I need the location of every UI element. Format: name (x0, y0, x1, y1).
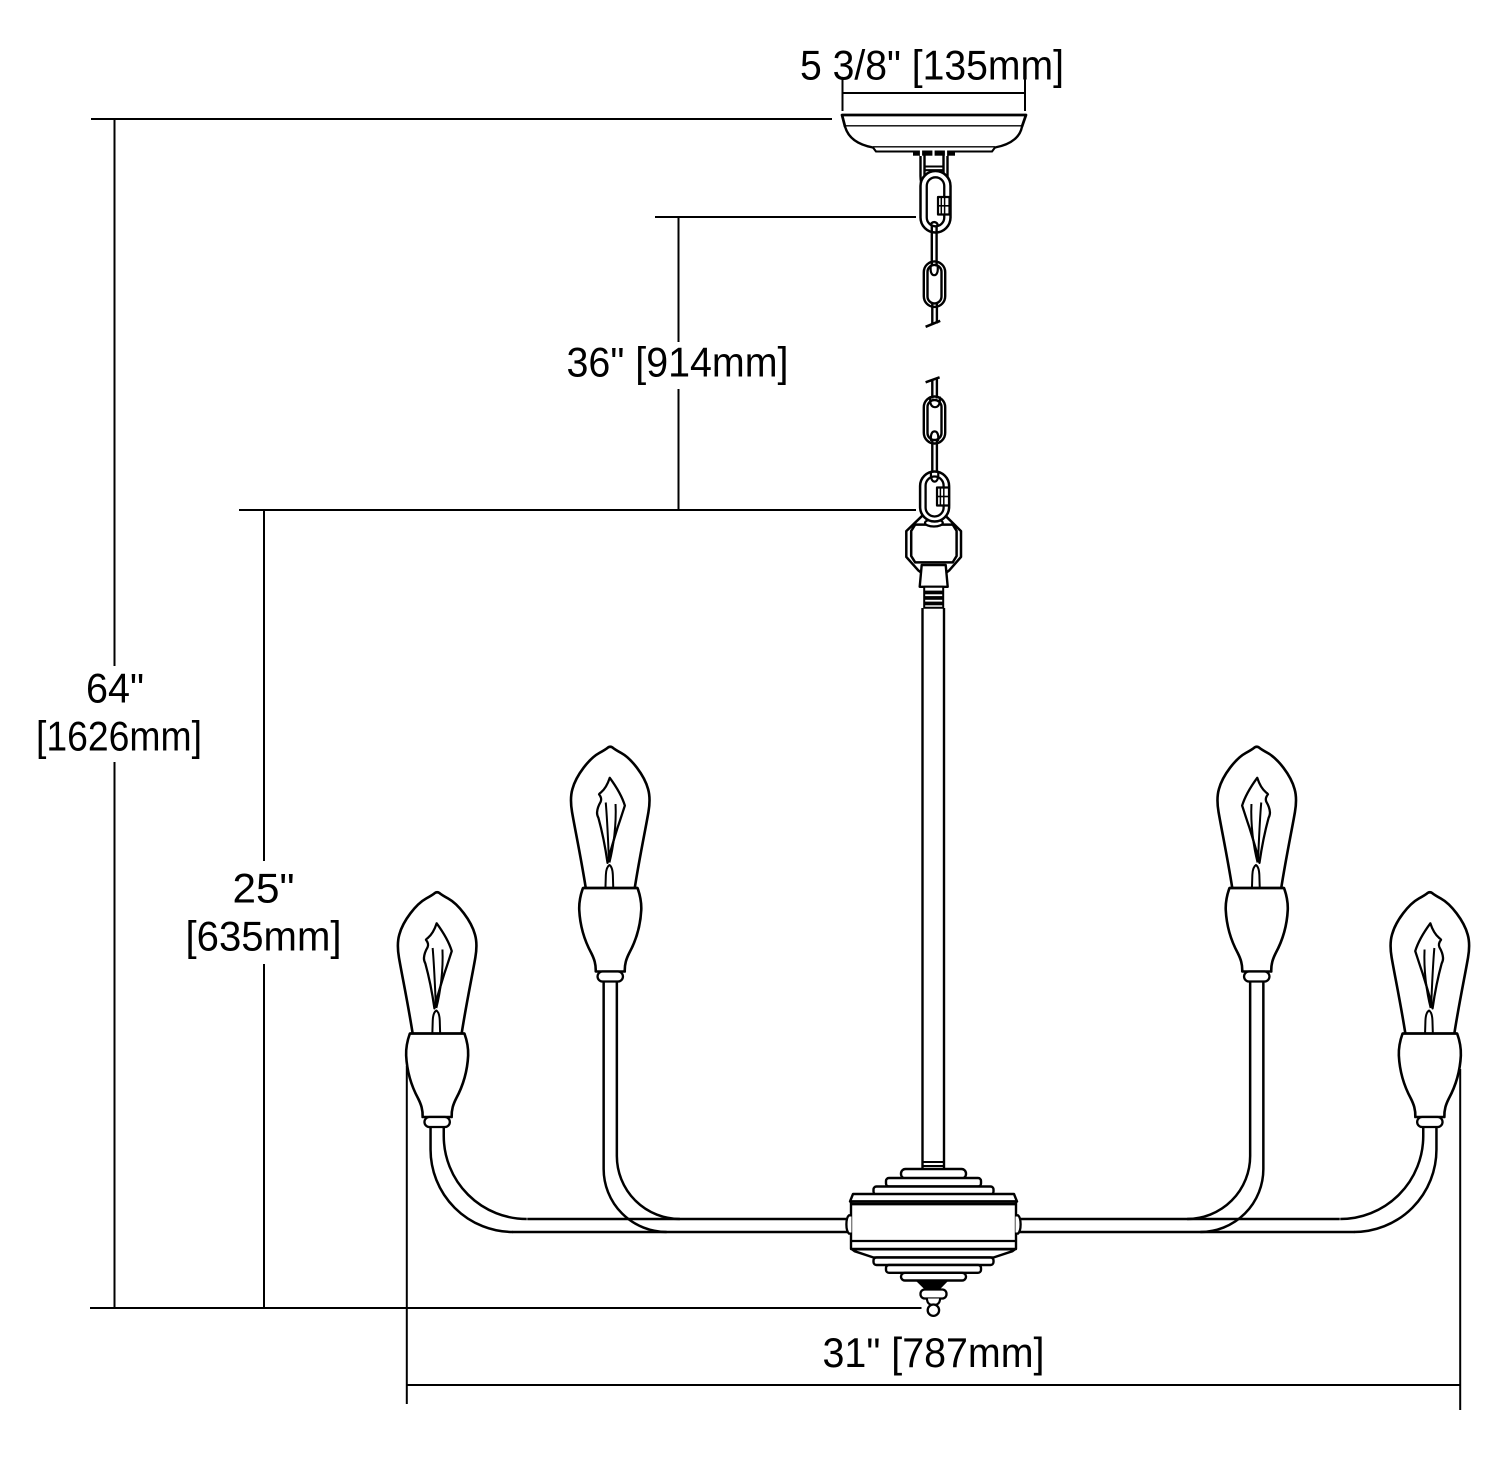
svg-text:[635mm]: [635mm] (186, 913, 342, 960)
svg-text:31" [787mm]: 31" [787mm] (823, 1329, 1045, 1376)
svg-text:36" [914mm]: 36" [914mm] (567, 339, 789, 386)
svg-text:64": 64" (86, 665, 144, 712)
svg-text:5 3/8" [135mm]: 5 3/8" [135mm] (800, 42, 1064, 89)
svg-text:[1626mm]: [1626mm] (36, 713, 202, 760)
svg-text:25": 25" (233, 865, 295, 912)
